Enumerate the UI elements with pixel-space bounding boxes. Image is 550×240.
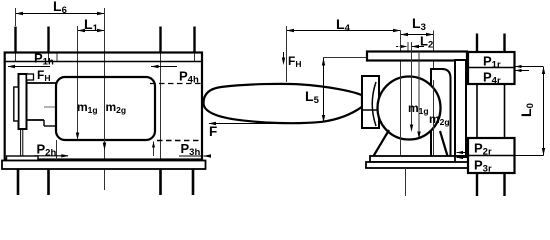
left housing outline	[5, 53, 202, 160]
bottom fixture bolt 1	[476, 173, 478, 196]
clamp block	[362, 76, 379, 128]
bracket top notch	[27, 74, 34, 80]
stud bolt 1 top of left housing	[14, 27, 16, 54]
left base plate	[2, 161, 206, 170]
right support leg	[440, 131, 448, 156]
extension line at L4 right end	[400, 31, 402, 78]
dashed reference line upper	[150, 83, 201, 85]
m1g CG line right machine	[411, 42, 413, 130]
right base top plate	[370, 156, 455, 162]
m2g CG line right machine	[418, 51, 420, 137]
small up arrow below body corner	[153, 142, 155, 157]
L2 converging arrow left	[396, 46, 404, 48]
shaft bottom line	[27, 119, 45, 121]
P2r P3r box	[468, 138, 515, 173]
fixture column line 1	[476, 84, 478, 138]
left support leg	[374, 130, 390, 156]
P1r arrow with L0 connector	[515, 66, 543, 68]
dimension L0	[543, 67, 545, 156]
m1g centerline over body	[77, 78, 79, 139]
P4h arrow pointing left	[151, 66, 177, 68]
left housing top plate line	[5, 61, 202, 63]
vibrating body of left machine	[56, 77, 155, 140]
P3h arrow pointing left outside housing	[179, 155, 202, 157]
dimension L4	[287, 30, 401, 32]
dimension L6	[16, 13, 105, 15]
dimension L5 vertical	[323, 58, 325, 123]
P4r arrow	[515, 70, 529, 72]
blade tip arc inside block	[372, 82, 376, 126]
right machine vertical plate	[455, 60, 466, 156]
L5 top connector line	[324, 57, 368, 59]
clamp block inner line	[362, 109, 379, 111]
fixture bracket inner plate	[14, 87, 19, 121]
P1r P4r midline	[468, 67, 515, 69]
left machine leg 1	[17, 169, 20, 195]
FH down arrow right machine	[283, 52, 285, 63]
P2h arrow pointing right	[34, 155, 68, 157]
mounting plate behind circle	[431, 69, 451, 156]
extension line at L3 right end	[433, 31, 435, 81]
bottom fixture bolt 2	[503, 173, 505, 196]
L2 converging arrow right	[412, 46, 424, 48]
shaft step vertical	[43, 120, 45, 126]
fixture bracket outer	[19, 74, 27, 129]
L2 left reference line	[407, 42, 409, 60]
bracket stem line 2	[22, 129, 24, 156]
stud bolt 2 top of left housing	[47, 27, 49, 54]
FH force arrow pointing left	[8, 66, 50, 68]
right machine top bar	[367, 52, 467, 61]
svg-text:F: F	[209, 124, 217, 139]
centerline below right base	[405, 168, 407, 196]
P2r arrow pointing left	[457, 152, 469, 154]
left machine leg 2	[47, 169, 50, 195]
P2r P3r midline	[468, 155, 515, 157]
top fixture bolt 1	[476, 34, 478, 53]
L4 left extension line	[286, 26, 288, 82]
m1g centerline with down arrow	[77, 26, 79, 139]
P1r P4r box	[468, 52, 515, 84]
shaft step horizontal	[44, 125, 56, 127]
P3r arrow pointing left	[457, 157, 469, 159]
bracket stem line 1	[20, 129, 22, 156]
body left edge extension	[56, 140, 58, 160]
inner bottom bar	[7, 156, 39, 161]
dimension L3	[401, 34, 434, 36]
bolt centerline through housing	[160, 53, 162, 169]
fixture column line 2	[504, 84, 506, 138]
left machine leg 3	[159, 169, 162, 195]
extension line x433 through circle	[433, 80, 435, 156]
shaft mid tick	[44, 106, 56, 108]
L0 bottom connector	[515, 155, 544, 157]
top fixture bolt 2	[503, 34, 505, 53]
left machine leg 4	[192, 169, 195, 195]
shaft top line	[27, 82, 57, 84]
bolt 4 line through top plate	[194, 53, 196, 62]
stud bolt 4 top of left housing	[193, 27, 195, 54]
m2g centerline over body	[104, 78, 106, 149]
right base bottom plate	[366, 162, 469, 168]
dimension L1	[78, 30, 105, 32]
bolt 2 line through top plate	[48, 53, 50, 62]
connecting blade (elliptical link)	[204, 84, 363, 123]
body left edge line through top plate	[56, 53, 58, 62]
exciter circle	[378, 77, 441, 140]
dashed reference line	[157, 140, 202, 142]
m2g centerline with down arrow	[104, 8, 106, 190]
L6 left extension line	[15, 8, 17, 26]
stud bolt 3 top of left housing	[159, 27, 161, 54]
bolt 1 line through top plate	[15, 53, 17, 62]
extension line x400 through circle	[400, 77, 402, 156]
F force arrow pointing left	[209, 123, 298, 125]
